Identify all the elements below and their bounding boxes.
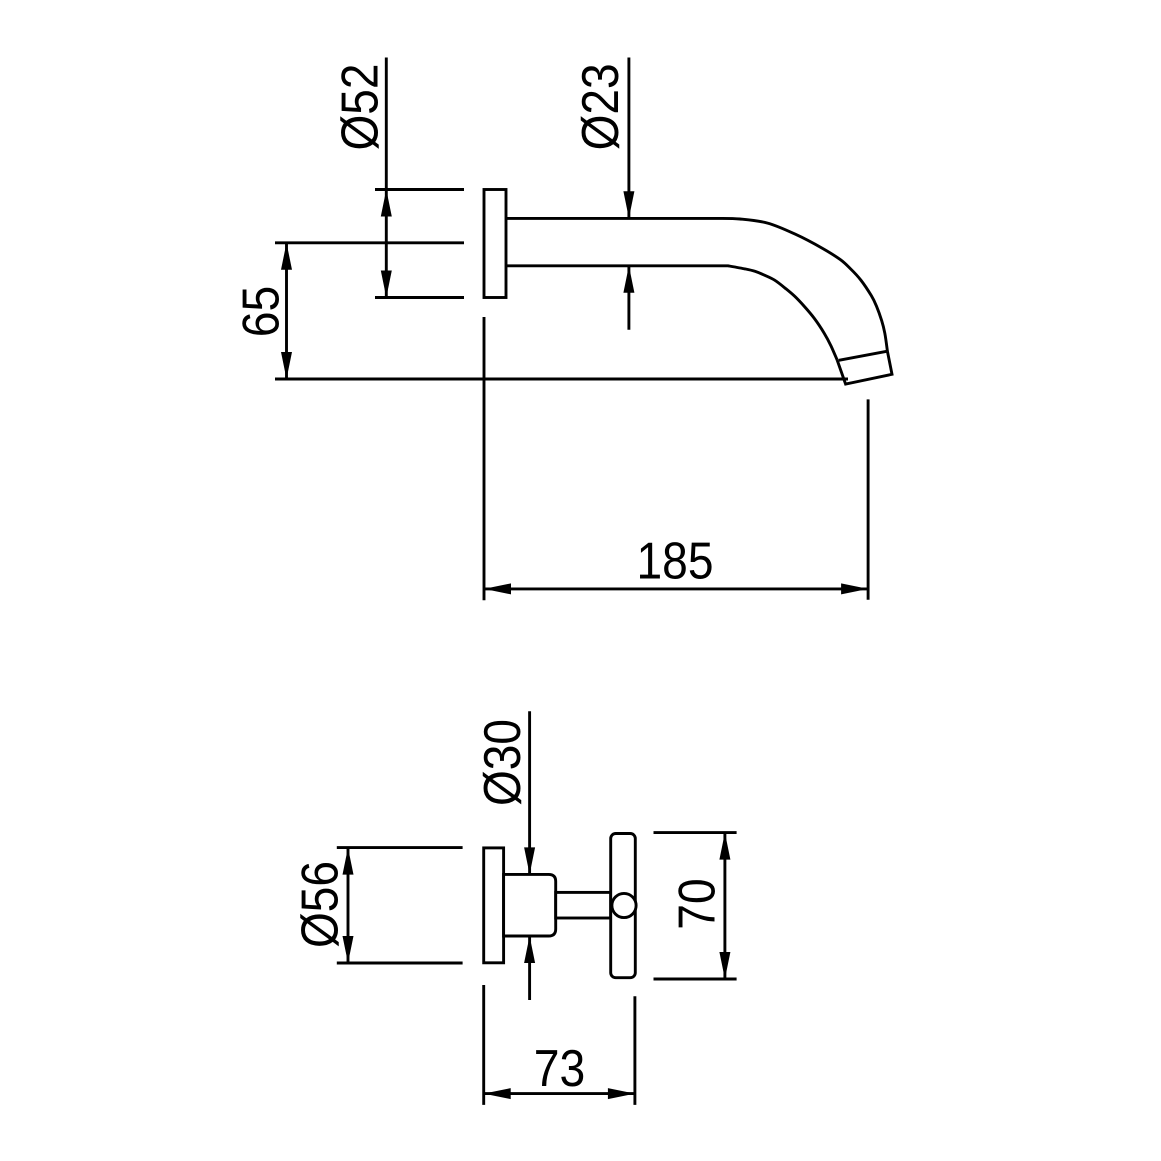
dim 185 dimension line [484,587,868,590]
svg-text:73: 73 [534,1040,586,1098]
dim 73 extension left [482,985,485,1105]
dim Ø30 lower leader [528,936,531,1000]
dim 73 dimension line [484,1092,635,1095]
svg-text:Ø23: Ø23 [572,63,630,150]
arrow Ø30 down [524,847,535,874]
dim Ø23 lower leader [627,266,630,330]
dim 70 dimension line [723,833,726,979]
dim 70 extension bottom [654,978,737,981]
dim Ø52 leader/dimension line [385,58,388,298]
arrow Ø56 up [343,848,354,875]
dim 65 dimension line [285,243,288,379]
dim Ø56 extension bottom [337,962,463,965]
svg-text:65: 65 [233,286,291,338]
arrow Ø23 up [623,266,634,293]
dim Ø23 upper leader [627,58,630,219]
valve handle [611,834,636,978]
arrow 73 left [484,1088,511,1099]
svg-text:70: 70 [669,878,727,930]
spout aerator line [839,351,888,360]
dim 185 extension left [483,317,486,600]
arrow 70 up [719,833,730,860]
spout tube outer (top) edge [506,218,887,351]
valve flange [484,848,504,963]
arrow 65 up [281,243,292,270]
arrow Ø30 up [524,936,535,963]
arrow 185 left [484,583,511,594]
spout flange [484,190,506,298]
arrow Ø52 up [381,190,392,217]
dim Ø56 extension top [337,846,463,849]
arrow Ø56 down [343,936,354,963]
arrow 73 right [608,1088,635,1099]
arrow Ø52 down [381,271,392,298]
wall baseline [275,378,848,381]
dim 73 extension right [633,996,636,1105]
dim Ø30 upper leader [528,711,531,874]
valve body [504,874,556,936]
spout tip outline [837,351,892,384]
svg-text:Ø56: Ø56 [292,861,350,948]
svg-text:185: 185 [637,533,714,591]
arrow 70 down [719,952,730,979]
svg-text:Ø52: Ø52 [332,64,390,151]
dim Ø52 extension bottom [375,296,464,299]
svg-text:Ø30: Ø30 [474,719,532,806]
valve stem [556,892,611,918]
dim Ø56 dimension line [347,848,350,963]
arrow 65 down [281,352,292,379]
dim 70 extension top [654,831,737,834]
arrow 185 right [841,583,868,594]
spout tube inner (bottom) edge [506,266,837,360]
arrow Ø23 down [623,191,634,218]
handle screw circle [612,893,636,917]
spout axis extension line [275,241,464,244]
dim Ø52 extension top [375,188,464,191]
dim 185 extension right [867,399,870,599]
